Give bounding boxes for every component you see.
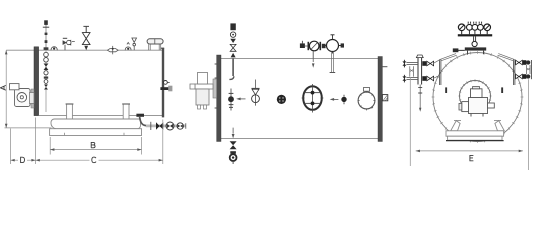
pump foot 1 bbox=[198, 105, 201, 109]
handhole bolts bbox=[279, 97, 280, 98]
burner right stub bbox=[488, 103, 495, 108]
capsule leg 2 bbox=[159, 44, 161, 50]
burner left stub bbox=[462, 102, 469, 112]
handhole cover (dark) bbox=[277, 95, 286, 104]
level probe body (dark) bbox=[228, 96, 234, 102]
left gauge row 2 bbox=[402, 75, 433, 83]
burner air inlet duct bbox=[10, 84, 20, 90]
arrow D right bbox=[31, 159, 35, 162]
steam header capsule bbox=[147, 39, 163, 44]
extension base left bbox=[49, 137, 51, 155]
bottom blowdown arrow bbox=[232, 128, 234, 134]
blowdown valve 1 (dark bowtie) bbox=[156, 122, 163, 129]
probe arrowhead bbox=[236, 98, 240, 101]
blowdown bottom tick bbox=[232, 161, 234, 164]
valve 3 bowtie bbox=[178, 124, 183, 128]
blowdown elbow pipe bbox=[140, 117, 146, 126]
label D backing bbox=[18, 155, 27, 164]
manhole side ticks bbox=[302, 97, 324, 99]
burner fan housing bbox=[15, 89, 31, 107]
small plug (dark) bbox=[341, 97, 346, 102]
manhole oval bbox=[303, 86, 322, 110]
manifold flange legs bbox=[468, 51, 484, 55]
gauge cock body 3 bbox=[44, 71, 48, 75]
feed check side dash bbox=[72, 41, 75, 43]
left gauge column cap bbox=[416, 55, 423, 58]
level probe stem bbox=[230, 89, 232, 111]
stop valve dot bbox=[112, 48, 114, 50]
dimension B line bbox=[50, 149, 141, 151]
right gauge glass tube bbox=[527, 65, 530, 74]
boiler shell bottom line bbox=[39, 115, 163, 117]
row1 right block bbox=[422, 61, 426, 66]
aux valve T-bar bbox=[252, 87, 260, 89]
arrow A bottom bbox=[5, 124, 8, 128]
inter block (dark) bbox=[322, 44, 326, 48]
manhole crossbar bottom bbox=[305, 102, 320, 104]
manhole dome 1 bbox=[51, 47, 57, 50]
extension burner front bbox=[10, 129, 12, 165]
manifold flange (dark) bbox=[465, 47, 486, 50]
manhole dog top bbox=[311, 91, 315, 95]
valve 2 bowtie bbox=[167, 124, 173, 128]
arrow B right bbox=[137, 148, 141, 151]
rear wall top step bbox=[161, 47, 164, 49]
stop valve stem into shell bbox=[312, 51, 314, 59]
manifold stem bbox=[474, 36, 476, 41]
left standpipe links bbox=[434, 54, 457, 79]
plug ticks bbox=[343, 95, 345, 104]
left drain chain bbox=[419, 85, 421, 111]
label B bbox=[91, 142, 95, 147]
row1 bowtie bbox=[427, 61, 434, 66]
dimension D line bbox=[11, 159, 36, 161]
whistle valve funnel bbox=[132, 38, 137, 42]
gauge block (dark) bbox=[300, 43, 305, 48]
blowdown pipe horizontal bbox=[146, 125, 186, 127]
extension rear wall bbox=[162, 120, 164, 165]
probe arrow bbox=[239, 98, 246, 100]
manhole arrow bbox=[332, 98, 338, 100]
feed inlet flange block bbox=[230, 23, 235, 30]
arrow B left bbox=[50, 148, 54, 151]
feed inlet base triangle bbox=[231, 53, 236, 58]
sight glass tick bbox=[168, 81, 170, 83]
blowdown fitting dot bbox=[232, 156, 234, 158]
manhole crossbar top bbox=[305, 92, 320, 94]
safety internal pipe bbox=[332, 52, 334, 73]
stay mark right bbox=[501, 87, 503, 93]
blowdown fitting body bbox=[230, 154, 237, 161]
shell bottom line bbox=[221, 138, 378, 140]
right standpipe on shell bbox=[513, 59, 515, 85]
stop valve internal arrow bbox=[312, 58, 314, 62]
aux globe valve stem bbox=[255, 80, 257, 89]
post left cap bbox=[66, 103, 74, 105]
blowdown end tick bbox=[185, 123, 187, 129]
manhole dome 2 bbox=[125, 47, 131, 50]
feed inlet wheel bbox=[230, 32, 235, 37]
dome 1 dot bbox=[53, 48, 55, 50]
standpipe bead 1 bbox=[45, 33, 48, 35]
row1 bowtie bbox=[516, 60, 523, 65]
flue outlet stub bbox=[382, 95, 387, 101]
safety valve stem T-bar bbox=[83, 26, 89, 32]
feed check valve bowtie bbox=[63, 40, 67, 45]
safety valve upper triangle bbox=[82, 33, 90, 39]
feed pump flange bbox=[213, 79, 217, 98]
safety valve top tee bbox=[331, 34, 335, 36]
feed pump top box bbox=[198, 73, 208, 85]
capsule leg 1 bbox=[149, 44, 151, 50]
glass tube marks bbox=[410, 69, 414, 71]
water gauge standpipe upper bbox=[45, 25, 47, 51]
connector to valve bbox=[305, 45, 309, 47]
gauge top fitting bbox=[44, 20, 48, 25]
furnace rivet ticks bbox=[458, 79, 491, 112]
level probe flange top bbox=[229, 92, 234, 94]
shell top line bbox=[221, 57, 378, 59]
side pipe blob (dark) bbox=[453, 48, 459, 52]
blowdown valve 3 bbox=[177, 123, 183, 129]
right gauge row 1 bbox=[516, 60, 531, 65]
row1 left cross fitting bbox=[402, 61, 406, 65]
shell rivet ticks bbox=[432, 51, 524, 143]
saddle slab 1 bbox=[446, 131, 504, 136]
whistle valve ball bbox=[133, 43, 136, 46]
extension base right bbox=[141, 137, 143, 155]
extension front plate bbox=[35, 118, 37, 165]
arrow A top bbox=[5, 50, 8, 54]
blowdown fitting cap bbox=[230, 151, 236, 154]
stop valve stem tick bbox=[112, 46, 114, 54]
saddle slab 2 bbox=[448, 136, 502, 140]
saddle right cheek bbox=[495, 121, 504, 131]
label E bbox=[470, 155, 474, 160]
burner fan hub bbox=[20, 96, 23, 99]
right riser pipe bbox=[528, 79, 530, 170]
manifold side pipe bbox=[454, 49, 465, 51]
safety internal pipe flange bbox=[330, 72, 336, 74]
feed dip pipe foot bbox=[229, 76, 233, 79]
left gauge glass tube bbox=[410, 66, 414, 76]
gauge glass valve (dark hourglass) bbox=[44, 64, 49, 71]
label A bbox=[0, 85, 5, 90]
burner top box bbox=[471, 89, 483, 98]
safety valve lower triangle bbox=[82, 39, 90, 45]
main stop valve body bbox=[309, 41, 319, 51]
manifold wheel 3 bbox=[478, 24, 484, 30]
gauge flange 2 bbox=[44, 77, 48, 79]
right glass marks bbox=[527, 68, 530, 70]
row1 cock (dark circle) bbox=[526, 60, 530, 64]
tray bottom extension bbox=[5, 127, 52, 129]
blowdown flange (dark) bbox=[136, 114, 144, 117]
dimension E line bbox=[416, 150, 523, 152]
dome 2 vent tip bbox=[127, 43, 130, 45]
dimension C line bbox=[36, 159, 163, 161]
manhole arrowhead bbox=[330, 98, 334, 101]
left end plate (dark) bbox=[217, 55, 221, 142]
safety valve body top bbox=[327, 40, 339, 52]
left gauge column body bbox=[418, 58, 422, 85]
feed inlet wheel dot bbox=[232, 34, 234, 36]
feed check valve T-handle bbox=[63, 37, 67, 39]
arrow E left bbox=[416, 150, 420, 153]
manifold valve slash circle left bbox=[458, 24, 465, 31]
burner top cap bbox=[473, 87, 480, 89]
right gauge side bar bbox=[530, 60, 532, 79]
label C bbox=[92, 157, 96, 163]
stop valve flange L bbox=[307, 42, 309, 50]
saddle top ticks bbox=[454, 120, 501, 122]
whistle valve stem bbox=[133, 46, 135, 50]
feed pump side box bbox=[190, 84, 195, 89]
blowdown valve 2 (globe) bbox=[166, 122, 174, 130]
base tray bbox=[51, 119, 141, 129]
pump foot 2 bbox=[204, 105, 207, 109]
feed check valve wheel bbox=[67, 40, 71, 44]
row1 flange block bbox=[523, 60, 527, 65]
rear flue flange (dark) bbox=[160, 87, 168, 90]
left gauge row 1 bbox=[402, 60, 433, 68]
manhole vertical centerline bbox=[312, 84, 314, 113]
gauge block tick bbox=[301, 41, 303, 44]
aux valve globe line bbox=[255, 95, 257, 106]
row1 arm tube bbox=[406, 62, 417, 64]
blowdown pipe tick bbox=[150, 122, 152, 130]
saddle left cheek bbox=[451, 121, 460, 131]
burner feet bbox=[471, 114, 483, 117]
boiler shell circle bbox=[433, 53, 522, 142]
left gauge riser pipe bbox=[409, 77, 411, 166]
left plate bolt ticks bbox=[215, 64, 217, 108]
saddle base line (dark) bbox=[446, 140, 504, 142]
rear wall (dark) bbox=[162, 48, 164, 117]
feed pump body bbox=[196, 89, 209, 105]
left standpipe on shell bbox=[439, 59, 441, 85]
feed dip pipe bbox=[232, 58, 234, 76]
flue ring cap bbox=[363, 88, 369, 92]
rear wall sight glass bbox=[164, 81, 168, 85]
rear flue box bbox=[168, 86, 172, 92]
stop valve flange R bbox=[319, 42, 321, 50]
right end plate (dark) bbox=[378, 57, 382, 142]
right wall top tick bbox=[382, 66, 387, 68]
stub hatch bbox=[383, 95, 387, 100]
boiler shell top line bbox=[6, 49, 163, 51]
manifold valve slash circle right bbox=[484, 24, 491, 31]
gauge cock body 2 bbox=[44, 58, 49, 63]
gauge cock body 1 bbox=[44, 52, 49, 57]
manifold wheel 2 bbox=[472, 24, 478, 30]
arrow C left bbox=[36, 159, 40, 162]
gauge drain cock bbox=[44, 80, 48, 84]
safety valve base triangle bbox=[84, 46, 88, 50]
support post right bbox=[123, 104, 129, 119]
aux valve globe bbox=[252, 95, 260, 103]
label C backing bbox=[90, 155, 99, 164]
gauge top tick bbox=[43, 26, 49, 28]
water gauge internal pipe bbox=[45, 50, 47, 112]
feed inlet valve bowtie bbox=[230, 44, 236, 51]
safety valve cross ticks bbox=[325, 35, 342, 54]
furnace tube circle bbox=[460, 81, 491, 112]
manhole dog bottom bbox=[311, 102, 315, 106]
front tube plate (dark) bbox=[34, 47, 39, 116]
manifold bar (dark) bbox=[458, 34, 492, 36]
flue ring bolts bbox=[358, 91, 376, 111]
feed inlet dark triangle bbox=[230, 39, 236, 43]
gauge lower valve (dark) bbox=[44, 85, 48, 90]
post right cap bbox=[122, 103, 130, 105]
burner body bbox=[469, 98, 488, 114]
foundation slab bbox=[50, 129, 142, 136]
arrow E right bbox=[519, 150, 523, 153]
bottom blowdown valve (dark bowtie) bbox=[230, 141, 237, 149]
burner fan circle bbox=[17, 93, 27, 103]
front plate liner bbox=[31, 89, 34, 108]
level probe flange bottom bbox=[229, 105, 234, 108]
standpipe bead 2 bbox=[45, 40, 48, 43]
right gauge row 2 bbox=[516, 74, 531, 79]
foundation tick 1 bbox=[64, 133, 66, 136]
manifold wheel 1 bbox=[467, 24, 473, 30]
burner flange to plate bbox=[30, 93, 35, 104]
feed pump pipe bbox=[195, 84, 213, 89]
foundation tick 2 bbox=[123, 133, 125, 136]
stop valve lens body bbox=[108, 49, 119, 52]
feed check valve stem bbox=[64, 45, 66, 50]
safety valve side block bbox=[341, 43, 344, 47]
arrow D left bbox=[11, 159, 15, 162]
arrow C right bbox=[159, 159, 163, 162]
stop valve diagonal bbox=[311, 43, 317, 50]
right standpipe links bbox=[498, 54, 515, 61]
gauge flange 1 bbox=[44, 47, 49, 50]
capsule divider bbox=[154, 39, 156, 44]
dimension A line bbox=[5, 50, 7, 128]
manifold ring bbox=[472, 41, 477, 46]
stay mark left bbox=[445, 87, 447, 93]
label D bbox=[21, 157, 25, 162]
support post left bbox=[67, 104, 73, 119]
burner left cap bbox=[459, 103, 462, 110]
dome 2 dot bbox=[127, 48, 129, 50]
rear flue ring bbox=[358, 92, 375, 109]
aux valve bowtie bbox=[252, 89, 259, 95]
